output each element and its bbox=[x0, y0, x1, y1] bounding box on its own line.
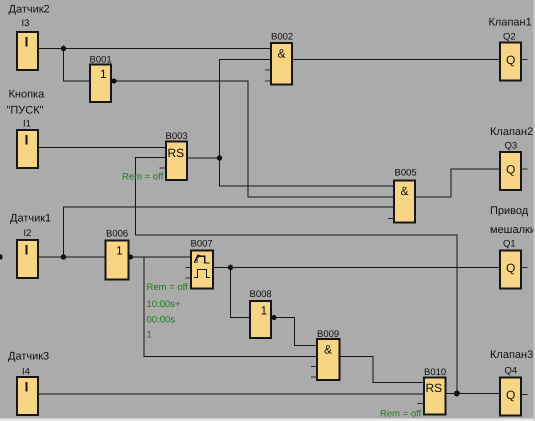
svg-text:Q: Q bbox=[506, 163, 515, 177]
wire junction up to B002 input2 bbox=[220, 60, 272, 159]
wire branch from node at I3 output down to B001 input bbox=[64, 49, 91, 82]
svg-text:Q3: Q3 bbox=[505, 141, 518, 152]
label Датчик2 bbox=[9, 4, 50, 16]
and-gate B009 bbox=[311, 329, 340, 380]
output Q2 bbox=[500, 32, 528, 81]
or-gate B001 bbox=[90, 55, 112, 103]
right window edge bbox=[534, 0, 535, 421]
svg-text:&: & bbox=[278, 47, 286, 61]
svg-text:RS: RS bbox=[426, 381, 443, 395]
and-gate B005 bbox=[388, 168, 417, 223]
label Датчик3 bbox=[8, 351, 49, 363]
wire B003 output to junction bbox=[187, 157, 220, 159]
svg-text:10:00s+: 10:00s+ bbox=[147, 299, 182, 310]
svg-text:B007: B007 bbox=[191, 239, 213, 250]
output Q4 bbox=[500, 366, 528, 416]
svg-text:мешалки: мешалки bbox=[490, 224, 535, 236]
svg-text:Датчик1: Датчик1 bbox=[10, 213, 51, 225]
svg-text:Q: Q bbox=[506, 388, 515, 402]
svg-text:1: 1 bbox=[261, 304, 268, 318]
svg-text:Q: Q bbox=[506, 261, 515, 275]
wire B008 output to B009 input1 bbox=[271, 318, 317, 346]
output Q3 bbox=[500, 141, 528, 191]
svg-text:I1: I1 bbox=[23, 119, 31, 130]
svg-text:1: 1 bbox=[147, 330, 152, 341]
wire B009 output to B010 S input bbox=[340, 357, 425, 383]
svg-text:Q2: Q2 bbox=[503, 32, 516, 43]
wire branch down to B009 input2 bbox=[144, 257, 317, 357]
wire B005 output to Q3 bbox=[415, 169, 500, 197]
or-gate B008 bbox=[250, 289, 272, 338]
svg-text:Q: Q bbox=[506, 53, 515, 67]
wire B003 R input from B010 output net bbox=[136, 158, 458, 394]
wire B010 output to Q4 bbox=[446, 393, 501, 395]
label parameters B007 bbox=[147, 282, 189, 341]
wire junction down to B005 input1 bbox=[220, 158, 395, 186]
node B003 output junction bbox=[217, 155, 223, 161]
svg-text:1: 1 bbox=[116, 244, 123, 258]
label Привод мешалки bbox=[490, 205, 535, 236]
node junction on I2 output bbox=[61, 254, 67, 260]
svg-text:Датчик3: Датчик3 bbox=[8, 351, 49, 363]
svg-text:I4: I4 bbox=[22, 367, 30, 378]
or-gate B006 bbox=[106, 229, 129, 280]
node B008 output dot bbox=[271, 315, 276, 320]
wire branch down to B008 input bbox=[231, 268, 251, 318]
wire B002 output to Q2 bbox=[292, 59, 500, 61]
svg-text:B008: B008 bbox=[250, 289, 272, 300]
svg-text:Q1: Q1 bbox=[503, 239, 516, 250]
wire B001 output to B005 input2 bbox=[111, 81, 394, 197]
svg-text:B009: B009 bbox=[317, 329, 339, 340]
label Датчик1 bbox=[10, 213, 51, 225]
output Q1 bbox=[500, 239, 528, 289]
svg-text:Rem = off: Rem = off bbox=[380, 409, 422, 420]
label Rem off B003 bbox=[122, 172, 164, 183]
svg-text:"ПУСК": "ПУСК" bbox=[7, 105, 44, 117]
svg-text:B010: B010 bbox=[424, 367, 446, 378]
label Rem off B010 bbox=[380, 409, 422, 420]
input I2 bbox=[17, 228, 38, 278]
node junction on I3 output bbox=[61, 46, 67, 52]
label Кнопка ПУСК bbox=[7, 89, 46, 117]
input I1 bbox=[17, 119, 38, 169]
wire I2 output to B006 input bbox=[38, 256, 106, 258]
svg-text:Клапан2: Клапан2 bbox=[490, 126, 533, 138]
pulse relay B007 bbox=[186, 239, 214, 289]
svg-text:B002: B002 bbox=[271, 32, 293, 43]
svg-text:I2: I2 bbox=[24, 228, 32, 239]
svg-text:00:00s: 00:00s bbox=[147, 315, 176, 326]
svg-text:Rem = off: Rem = off bbox=[122, 172, 164, 183]
wire B007 output to Q1 bbox=[213, 267, 500, 269]
wire I3 output to B002 input1 bbox=[38, 48, 271, 50]
label Клапан2 bbox=[490, 126, 533, 138]
bottom window edge bbox=[0, 419, 535, 421]
svg-text:I3: I3 bbox=[22, 18, 30, 29]
svg-text:B005: B005 bbox=[395, 168, 417, 179]
node B006 output dot bbox=[128, 254, 133, 259]
input I4 bbox=[17, 367, 38, 416]
svg-text:B003: B003 bbox=[166, 131, 188, 142]
and-gate B002 bbox=[265, 32, 293, 85]
svg-text:B006: B006 bbox=[106, 229, 128, 240]
svg-text:Rem = off: Rem = off bbox=[147, 282, 189, 293]
wire branch from I2 node up to B005 input3 bbox=[64, 207, 395, 257]
label Клапан1 bbox=[489, 17, 532, 29]
svg-text:Кнопка: Кнопка bbox=[9, 89, 46, 101]
svg-text:B001: B001 bbox=[90, 55, 112, 66]
wire B006 output to B007 input1 bbox=[129, 256, 192, 258]
node B007 output junction bbox=[228, 265, 234, 271]
label Клапан3 bbox=[490, 349, 533, 361]
node B001 output dot bbox=[111, 78, 116, 83]
svg-text:Привод: Привод bbox=[490, 205, 529, 217]
node junction on B010 output bbox=[454, 391, 460, 397]
input I3 bbox=[17, 18, 38, 70]
wire I1 output to B003 S input bbox=[38, 147, 166, 149]
svg-text:&: & bbox=[401, 184, 409, 198]
svg-text:Q4: Q4 bbox=[505, 366, 518, 377]
latching relay B010 bbox=[418, 367, 447, 415]
svg-text:RS: RS bbox=[168, 146, 185, 160]
wire I4 output to B010 R input bbox=[38, 393, 424, 395]
svg-text:1: 1 bbox=[100, 67, 107, 81]
svg-text:&: & bbox=[324, 343, 332, 357]
node branch dot after B006 bbox=[0, 254, 3, 260]
svg-text:Датчик2: Датчик2 bbox=[9, 4, 50, 16]
svg-text:Клапан3: Клапан3 bbox=[490, 349, 533, 361]
latching relay B003 bbox=[160, 131, 188, 180]
svg-text:Клапан1: Клапан1 bbox=[489, 17, 532, 29]
